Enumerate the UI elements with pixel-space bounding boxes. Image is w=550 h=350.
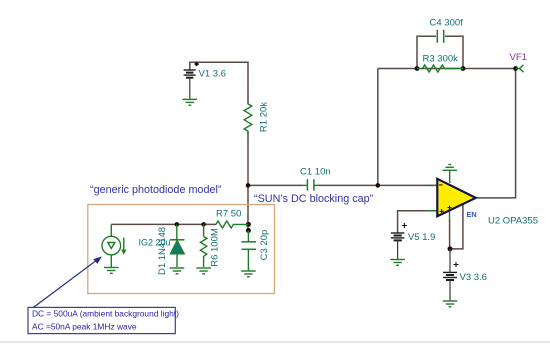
svg-text:R6 100M: R6 100M (210, 228, 221, 267)
svg-text:R1 20k: R1 20k (259, 102, 270, 132)
svg-text:V3 3.6: V3 3.6 (460, 272, 487, 283)
svg-text:DC = 500uA (ambient background: DC = 500uA (ambient background light) (32, 309, 179, 319)
svg-text:“generic photodiode model”: “generic photodiode model” (90, 184, 222, 196)
svg-text:C1 10n: C1 10n (300, 167, 331, 178)
svg-text:R7 50: R7 50 (216, 209, 241, 220)
svg-text:AC =50nA peak 1MHz wave: AC =50nA peak 1MHz wave (32, 322, 137, 332)
svg-text:EN: EN (467, 210, 477, 219)
svg-text:D1 1N4148: D1 1N4148 (157, 227, 168, 275)
svg-text:C3 20p: C3 20p (259, 230, 270, 261)
svg-text:R3 300k: R3 300k (423, 54, 459, 65)
svg-text:VF1: VF1 (510, 52, 527, 63)
svg-text:U2 OPA355: U2 OPA355 (488, 216, 538, 227)
svg-text:C4 300f: C4 300f (430, 18, 464, 29)
svg-text:V1 3.6: V1 3.6 (199, 69, 226, 80)
svg-text:“SUN’s DC blocking cap”: “SUN’s DC blocking cap” (254, 193, 374, 205)
svg-text:V5 1.9: V5 1.9 (408, 232, 435, 243)
